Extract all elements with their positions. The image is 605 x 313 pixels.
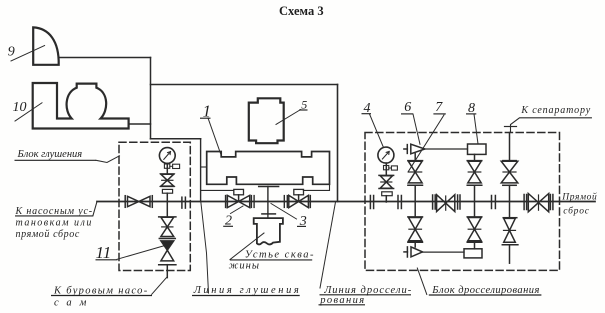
- svg-text:сам: сам: [54, 298, 94, 309]
- svg-text:тановкам или: тановкам или: [16, 218, 93, 229]
- svg-text:жины: жины: [229, 261, 260, 272]
- svg-text:Схема 3: Схема 3: [279, 4, 324, 18]
- svg-text:К насосным ус-: К насосным ус-: [15, 206, 93, 217]
- svg-text:Блок глушения: Блок глушения: [17, 149, 83, 160]
- svg-text:11: 11: [96, 243, 112, 262]
- svg-text:2: 2: [225, 214, 232, 229]
- svg-text:Прямой: Прямой: [561, 192, 597, 203]
- svg-text:1: 1: [203, 102, 212, 121]
- svg-text:4: 4: [364, 101, 371, 116]
- svg-text:прямой сброс: прямой сброс: [16, 229, 80, 240]
- svg-text:сброс: сброс: [563, 206, 590, 217]
- svg-text:5: 5: [301, 98, 307, 112]
- svg-text:9: 9: [8, 44, 15, 59]
- svg-text:рования: рования: [319, 295, 365, 306]
- svg-text:Устье сква-: Устье сква-: [245, 250, 315, 261]
- svg-text:Блок дросселирования: Блок дросселирования: [431, 285, 539, 296]
- svg-text:К сепаратору: К сепаратору: [520, 105, 591, 116]
- svg-text:Линия глушения: Линия глушения: [193, 285, 302, 296]
- svg-text:10: 10: [13, 100, 27, 115]
- svg-text:3: 3: [299, 214, 307, 229]
- svg-text:К буровым насо-: К буровым насо-: [53, 286, 149, 297]
- svg-text:7: 7: [435, 100, 443, 115]
- svg-text:8: 8: [468, 101, 475, 116]
- svg-text:6: 6: [404, 100, 411, 115]
